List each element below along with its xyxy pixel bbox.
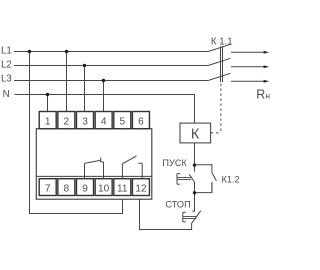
svg-text:L3: L3	[1, 74, 12, 85]
svg-text:8: 8	[64, 183, 70, 194]
svg-text:1: 1	[45, 116, 51, 127]
svg-text:9: 9	[82, 183, 88, 194]
svg-text:2: 2	[64, 116, 70, 127]
svg-text:11: 11	[117, 183, 128, 194]
svg-text:4: 4	[101, 116, 107, 127]
svg-text:ПУСК: ПУСК	[162, 158, 187, 168]
svg-text:L1: L1	[1, 46, 12, 57]
svg-text:К 1.1: К 1.1	[211, 37, 233, 48]
svg-text:К1.2: К1.2	[222, 174, 240, 184]
svg-text:СТОП: СТОП	[165, 200, 190, 210]
svg-text:N: N	[3, 89, 10, 100]
svg-text:7: 7	[45, 183, 51, 194]
svg-text:6: 6	[138, 116, 144, 127]
svg-text:3: 3	[82, 116, 88, 127]
svg-text:L2: L2	[1, 60, 12, 71]
svg-text:5: 5	[119, 116, 125, 127]
svg-text:10: 10	[98, 183, 110, 194]
svg-text:К: К	[191, 127, 200, 143]
svg-text:12: 12	[135, 183, 147, 194]
svg-text:Rн: Rн	[256, 87, 270, 101]
